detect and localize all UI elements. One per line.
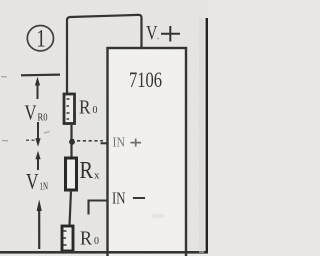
stray scan marks [1,39,159,141]
label IN- [112,189,145,208]
dashed net from node to IN+ pin [77,140,103,142]
dashed net stub left of arrow [26,139,36,141]
label VR0 [25,101,48,125]
resistor Rx [66,158,77,190]
annotation arrow up to datum bar [35,77,40,99]
page rule right edge [199,18,208,253]
label Rx [80,158,101,184]
label V+ [146,22,180,44]
label R0 top [79,97,98,119]
op-amp U1 IC 7106 body [108,48,187,256]
wire R0 to Rx with node junction [69,124,75,159]
label VIN [26,169,48,194]
annotation arrow long up toward VIN [37,200,42,250]
wire V+ rail from resistor chain top to IC V+ pin [67,15,142,94]
wire Rx to R0 bottom [70,190,72,226]
resistor R0 top [64,94,75,124]
label R0 bottom [80,228,99,250]
label IN+ [113,135,142,150]
annotation arrow down to node net [35,122,40,147]
page rule bottom [0,251,208,254]
annotation arrow up below node net [35,151,40,170]
paper grain overlay [0,0,208,256]
pin IN+ stub [101,142,109,144]
wire IN- pin hook [89,201,109,215]
resistor R0 bottom [62,226,73,251]
label 7106 [129,67,162,92]
figure number badge 1 [27,26,53,53]
paper background [0,0,208,256]
reference bar node (top measurement datum) [21,73,60,76]
